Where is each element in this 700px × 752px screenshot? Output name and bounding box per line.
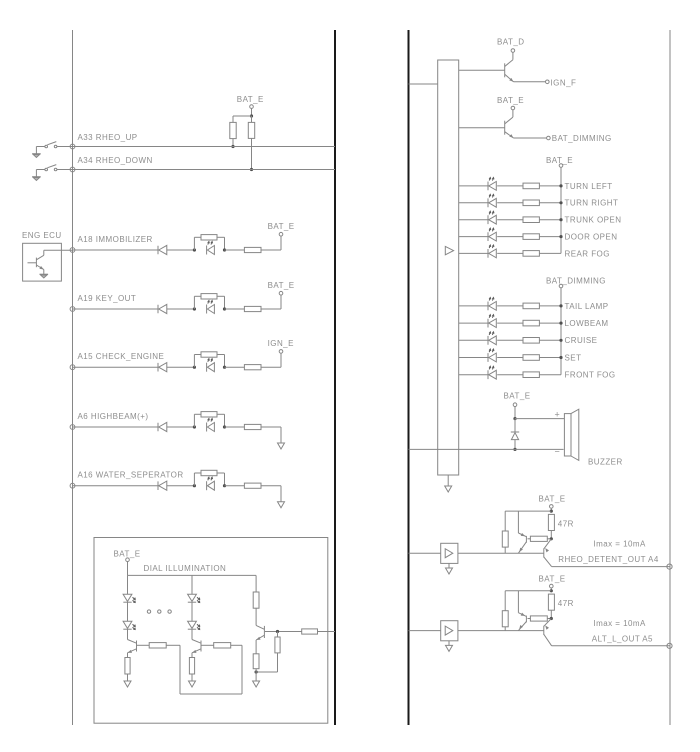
- wire A6 c: [225, 426, 245, 428]
- switch S A34: [45, 165, 57, 171]
- transistor Q limit ALT_L_OUT_A5: [518, 591, 526, 631]
- wire CRUISE b: [497, 339, 523, 341]
- wire dial BAT_E down: [127, 562, 129, 576]
- emitter arrow dial B: [191, 650, 196, 654]
- junction rail TAIL_LAMP: [559, 304, 562, 307]
- svg-text:LOWBEAM: LOWBEAM: [565, 319, 609, 328]
- wire SET c: [539, 357, 561, 359]
- junction rail SET: [559, 356, 562, 359]
- LED SET: [488, 349, 496, 362]
- LED dial A2: [123, 621, 135, 629]
- wire A18 bypass up: [193, 237, 195, 250]
- wire A33 to ground: [35, 147, 37, 154]
- transistor Q dial A: [128, 640, 137, 653]
- junction pullup tee: [250, 114, 253, 117]
- svg-text:REAR FOG: REAR FOG: [565, 249, 610, 258]
- resistor R bypass A6: [201, 412, 217, 417]
- svg-text:BAT_E: BAT_E: [539, 574, 566, 583]
- connector pin A33: [70, 144, 75, 149]
- junction rail DOOR_OPEN: [559, 235, 562, 238]
- wire FRONT_FOG b: [497, 374, 523, 376]
- svg-text:DIAL ILLUMINATION: DIAL ILLUMINATION: [144, 564, 227, 573]
- wire LOWBEAM b: [497, 322, 523, 324]
- svg-text:A33 RHEO_UP: A33 RHEO_UP: [78, 133, 138, 142]
- wire A19 b: [167, 308, 195, 310]
- wire buzzer plus: [515, 418, 564, 420]
- wire A15 to IGN_E: [280, 353, 282, 367]
- arrow Q limit e ALT_L_OUT_A5: [518, 625, 523, 630]
- emitter arrow Q dim: [509, 134, 514, 139]
- resistor R collector dial out: [253, 592, 259, 608]
- wire Q IGN_F emitter out: [514, 81, 546, 83]
- transistor Q limit RHEO_DETENT_OUT_A4: [518, 511, 526, 553]
- wire ECU to pin A18: [44, 249, 73, 251]
- terminal IGN_E (A15): [279, 350, 283, 354]
- terminal BAT_E (buzzer): [513, 403, 517, 407]
- ground A16: [278, 502, 285, 508]
- buffer U RHEO_DETENT_OUT_A4: [441, 543, 458, 563]
- wire A18 a: [73, 249, 159, 251]
- resistor R TAIL_LAMP: [523, 303, 539, 309]
- wire TRUNK_OPEN b: [497, 219, 523, 221]
- connector pin A16: [70, 483, 75, 488]
- ellipsis dots (repeated stages): [147, 610, 171, 613]
- diode D buzzer clamp: [511, 432, 519, 440]
- junction A15 right: [223, 366, 226, 369]
- wire ECU collector up: [43, 250, 45, 255]
- resistor R series A16: [244, 483, 261, 488]
- wire dial B to Q: [191, 629, 193, 639]
- left section thick border bus: [334, 30, 336, 725]
- wire A18 bypass down: [224, 237, 226, 250]
- buffer U ALT_L_OUT_A5: [441, 621, 458, 641]
- resistor R TRUNK_OPEN: [523, 217, 539, 223]
- wire TURN_RIGHT b: [497, 202, 523, 204]
- wire REAR_FOG a: [459, 252, 488, 254]
- wire dial out base: [265, 631, 302, 633]
- wire buffer RHEO_DETENT_OUT_A4 ground: [448, 563, 450, 568]
- wire BAT_DIMMING rail: [560, 288, 562, 375]
- wire dial link b: [231, 644, 242, 646]
- ENG ECU box: [23, 243, 62, 281]
- terminal BAT_E (A18): [279, 232, 283, 236]
- svg-text:ALT_L_OUT A5: ALT_L_OUT A5: [592, 634, 653, 643]
- wire pullup tee left: [233, 115, 252, 117]
- wire dial out top: [255, 575, 257, 592]
- wire dial link down: [179, 645, 181, 694]
- wire CRUISE a: [459, 339, 488, 341]
- wire Q IGN_F collector: [512, 52, 514, 59]
- diode D A19: [158, 304, 167, 313]
- resistor R bypass A19: [201, 294, 217, 299]
- wire CRUISE c: [539, 339, 561, 341]
- svg-text:47R: 47R: [558, 599, 574, 608]
- connector pin A34: [70, 167, 75, 172]
- resistor 47R RHEO_DETENT_OUT_A4: [548, 514, 554, 530]
- wire A19 bypass top-left: [194, 295, 201, 297]
- transistor Q ENG ECU: [28, 255, 44, 269]
- resistor R sense ALT_L_OUT_A5: [530, 616, 547, 621]
- terminal BAT_E (pullups): [250, 105, 254, 109]
- resistor R series A19: [244, 306, 261, 311]
- svg-text:BAT_DIMMING: BAT_DIMMING: [546, 277, 606, 286]
- transistor Q out RHEO_DETENT_OUT_A4: [544, 539, 552, 567]
- wire A33 to bus: [57, 146, 335, 148]
- svg-text:A16 WATER_SEPERATOR: A16 WATER_SEPERATOR: [78, 471, 184, 480]
- LED dial B1: [188, 594, 200, 602]
- wire Q limit base ALT_L_OUT_A5: [528, 618, 531, 620]
- wire BAT_E RHEO_DETENT_OUT_A4: [550, 508, 552, 511]
- resistor R pullup A34: [248, 122, 254, 138]
- svg-text:A15 CHECK_ENGINE: A15 CHECK_ENGINE: [78, 352, 165, 361]
- wire A16 bypass top-right: [217, 472, 225, 474]
- LED A15: [207, 359, 215, 372]
- junction A6 left: [193, 425, 196, 428]
- svg-text:BAT_E: BAT_E: [268, 222, 295, 231]
- resistor R series A15: [244, 365, 261, 370]
- wire TAIL_LAMP a: [459, 305, 488, 307]
- ground A6: [278, 443, 285, 449]
- arrow Q out c ALT_L_OUT_A5: [544, 624, 549, 629]
- wire switch A33 left: [36, 146, 45, 148]
- resistor R base dial out: [302, 629, 318, 634]
- wire box to Q IGN_F base: [459, 69, 505, 71]
- wire A6 bypass up: [193, 414, 195, 427]
- wire dial A top: [127, 575, 129, 594]
- left bus line (connector pins rail): [72, 30, 74, 725]
- junction A18 left: [193, 248, 196, 251]
- resistor R bias dial out: [275, 637, 280, 653]
- wire left R RHEO_DETENT_OUT_A4 a: [504, 511, 506, 531]
- diode D A16: [158, 481, 167, 490]
- connector pin ALT_L_OUT A5: [667, 643, 672, 648]
- terminal BAT_E (Q dim): [511, 106, 515, 110]
- wire REAR_FOG b: [497, 252, 523, 254]
- resistor R bypass A15: [201, 352, 217, 357]
- svg-text:TAIL LAMP: TAIL LAMP: [565, 302, 609, 311]
- wire A16 bypass down: [224, 473, 226, 486]
- wire FRONT_FOG c: [539, 374, 561, 376]
- svg-text:47R: 47R: [558, 519, 574, 528]
- svg-text:ENG ECU: ENG ECU: [22, 231, 62, 240]
- wire switch A34 left: [36, 169, 45, 171]
- resistor R TURN_LEFT: [523, 183, 539, 189]
- transistor Q IGN_F: [505, 60, 514, 82]
- wire dial B to ground: [191, 674, 193, 681]
- wire SET b: [497, 357, 523, 359]
- wire dial B top: [191, 575, 193, 594]
- svg-text:A18 IMMOBILIZER: A18 IMMOBILIZER: [78, 235, 153, 244]
- svg-text:DOOR OPEN: DOOR OPEN: [565, 233, 618, 242]
- resistor R DOOR_OPEN: [523, 234, 539, 240]
- wire top rail RHEO_DETENT_OUT_A4: [505, 510, 551, 512]
- LED A16: [207, 477, 215, 490]
- transistor Q dial out: [256, 625, 264, 640]
- svg-text:BAT_D: BAT_D: [497, 38, 524, 47]
- wire to R_up2: [251, 116, 253, 122]
- wire bus to buffer RHEO_DETENT_OUT_A4: [409, 552, 441, 554]
- junction 47R ALT_L_OUT_A5: [550, 617, 553, 620]
- wire 47R down RHEO_DETENT_OUT_A4: [550, 531, 552, 539]
- junction 47R RHEO_DETENT_OUT_A4: [550, 537, 553, 540]
- wire A19 to BAT_E: [280, 295, 282, 309]
- resistor R TURN_RIGHT: [523, 200, 539, 206]
- wire A19 a: [73, 308, 159, 310]
- terminal BAT_D: [511, 49, 515, 53]
- wire ECU emitter down: [43, 270, 45, 275]
- resistor R REAR_FOG: [523, 251, 539, 257]
- wire A15 bypass up: [193, 355, 195, 368]
- emitter arrow dial A: [127, 650, 132, 654]
- wire A6 d: [261, 426, 281, 428]
- wire A15 c: [225, 366, 245, 368]
- resistor R emitter dial B: [189, 658, 194, 675]
- resistor R CRUISE: [523, 338, 539, 344]
- wire 47R down ALT_L_OUT_A5: [550, 610, 552, 618]
- wire A6 b: [167, 426, 195, 428]
- wire A6 to ground: [280, 427, 282, 443]
- junction A18 right: [223, 248, 226, 251]
- wire A6 a: [73, 426, 159, 428]
- LED CRUISE: [488, 332, 496, 345]
- resistor R base dial A: [149, 643, 166, 648]
- wire box to Q dim base: [459, 127, 505, 129]
- terminal BAT_E (RHEO_DETENT_OUT_A4): [550, 505, 554, 509]
- transistor Q out ALT_L_OUT_A5: [544, 619, 552, 646]
- resistor R LOWBEAM: [523, 320, 539, 326]
- wire A16 to ground: [280, 486, 282, 502]
- wire dial link bottom: [180, 693, 242, 695]
- wire TRUNK_OPEN c: [539, 219, 561, 221]
- connector pin A6: [70, 425, 75, 430]
- terminal BAT_DIMMING (group): [559, 284, 563, 288]
- resistor R sense RHEO_DETENT_OUT_A4: [530, 536, 547, 541]
- right border rail: [669, 30, 671, 725]
- svg-text:A19 KEY_OUT: A19 KEY_OUT: [78, 294, 137, 303]
- ground A33 switch: [32, 154, 41, 158]
- svg-text:TURN LEFT: TURN LEFT: [565, 182, 613, 191]
- junction A16 left: [193, 484, 196, 487]
- svg-text:BAT_E: BAT_E: [114, 550, 141, 559]
- svg-text:FRONT FOG: FRONT FOG: [565, 371, 616, 380]
- junction rail TURN_LEFT: [559, 184, 562, 187]
- diode D A15: [158, 363, 167, 372]
- junction top ALT_L_OUT_A5: [550, 589, 553, 592]
- wire A19 bypass up: [193, 296, 195, 309]
- wire R_up1 to A33 line: [232, 139, 234, 147]
- wire ALT_L_OUT_A5: [550, 593, 552, 595]
- wire dial Rb down b: [277, 653, 279, 672]
- junction buzzer minus: [513, 448, 516, 451]
- svg-text:A6 HIGHBEAM(+): A6 HIGHBEAM(+): [78, 412, 149, 421]
- resistor R base RHEO_DETENT_OUT_A4: [502, 531, 508, 547]
- wire dial B mid: [191, 602, 193, 621]
- wire Q dim emitter out: [514, 137, 547, 139]
- wire box to ground: [447, 475, 449, 486]
- resistor R bypass A18: [201, 235, 217, 240]
- junction rail TURN_RIGHT: [559, 201, 562, 204]
- ground connector box: [445, 486, 452, 492]
- resistor R emitter dial A: [125, 658, 130, 675]
- wire A6 bypass top-left: [194, 413, 201, 415]
- wire BAT_E down: [251, 108, 253, 116]
- wire dial B emitter: [191, 653, 193, 658]
- svg-text:+: +: [555, 409, 561, 419]
- wire A16 c: [225, 485, 245, 487]
- LED dial B2: [188, 621, 200, 629]
- LED DOOR_OPEN: [488, 228, 496, 241]
- diode D A6: [158, 422, 167, 431]
- connector pin A19: [70, 307, 75, 312]
- svg-text:BAT_E: BAT_E: [268, 281, 295, 290]
- wire R sense to 47R ALT_L_OUT_A5: [547, 618, 551, 620]
- LED TURN_LEFT: [488, 178, 496, 191]
- LED A19: [207, 301, 215, 314]
- wire dial A mid: [127, 602, 129, 621]
- transistor Q BAT_DIMMING: [505, 117, 514, 138]
- svg-text:TURN RIGHT: TURN RIGHT: [565, 199, 619, 208]
- wire dial out to ground: [255, 669, 257, 681]
- wire A15 bypass down: [224, 355, 226, 368]
- wire FRONT_FOG a: [459, 374, 488, 376]
- wire TRUNK_OPEN a: [459, 219, 488, 221]
- transistor emitter arrow ENG ECU: [39, 266, 44, 271]
- wire buffer ALT_L_OUT_A5 ground: [448, 641, 450, 646]
- ground A34 switch: [32, 177, 41, 181]
- wire dial top rail: [128, 574, 257, 576]
- svg-text:BAT_E: BAT_E: [497, 96, 524, 105]
- wire A18 d: [261, 249, 281, 251]
- connector pin A15: [70, 365, 75, 370]
- junction A6 right: [223, 425, 226, 428]
- connector block box: [438, 60, 459, 475]
- diode D A18: [158, 245, 167, 254]
- transistor Q dial B: [192, 640, 201, 653]
- wire dial out to bus: [318, 631, 336, 633]
- terminal BAT_DIMMING: [547, 136, 551, 140]
- wire LOWBEAM a: [459, 322, 488, 324]
- resistor R bypass A16: [201, 470, 217, 475]
- wire A18 c: [225, 249, 245, 251]
- wire dial link a: [166, 644, 180, 646]
- ground ENG ECU: [40, 274, 49, 278]
- wire BAT_E ALT_L_OUT_A5: [550, 588, 552, 591]
- wire DOOR_OPEN c: [539, 236, 561, 238]
- wire dial out collector: [255, 608, 257, 625]
- terminal BAT_E (dial): [126, 558, 130, 562]
- svg-text:IGN_F: IGN_F: [551, 78, 577, 87]
- wire REAR_FOG c: [539, 252, 561, 254]
- ground dial A: [124, 681, 131, 687]
- junction buzzer plus: [513, 417, 516, 420]
- wire A18 bypass top-right: [217, 236, 225, 238]
- arrow Q limit c RHEO_DETENT_OUT_A4: [521, 533, 526, 538]
- wire to R_up1: [232, 116, 234, 122]
- wire TURN_LEFT b: [497, 185, 523, 187]
- wire buzzer BAT_E down: [514, 407, 516, 419]
- LED A18: [207, 242, 215, 255]
- junction A15 left: [193, 366, 196, 369]
- ground dial out: [253, 681, 260, 687]
- junction A19 right: [223, 307, 226, 310]
- arrow Q limit c ALT_L_OUT_A5: [521, 613, 526, 618]
- wire bus to connector box: [409, 83, 438, 85]
- wire TURN_LEFT a: [459, 185, 488, 187]
- wire dial A emitter: [127, 653, 129, 658]
- wire left R ALT_L_OUT_A5 b: [504, 627, 506, 631]
- emitter arrow dial out: [255, 637, 260, 642]
- wire dial Rb to emitter: [256, 671, 277, 673]
- wire A19 bypass down: [224, 296, 226, 309]
- junction A19 left: [193, 307, 196, 310]
- svg-text:A34 RHEO_DOWN: A34 RHEO_DOWN: [78, 156, 153, 165]
- resistor R series A18: [244, 247, 261, 252]
- resistor R SET: [523, 355, 539, 361]
- wire A15 bypass top-left: [194, 354, 201, 356]
- resistor R base dial B: [214, 643, 231, 648]
- wire A6 bypass top-right: [217, 413, 225, 415]
- terminal BAT_E (ALT_L_OUT_A5): [550, 584, 554, 588]
- resistor R series A6: [244, 424, 261, 429]
- ground buffer RHEO_DETENT_OUT_A4: [446, 568, 453, 574]
- wire left R RHEO_DETENT_OUT_A4 b: [504, 547, 506, 553]
- terminal BAT_E (group): [559, 164, 563, 168]
- svg-text:BUZZER: BUZZER: [588, 458, 623, 467]
- wire left R ALT_L_OUT_A5 a: [504, 591, 506, 611]
- wire A19 c: [225, 308, 245, 310]
- wire dial out emitter: [255, 640, 257, 654]
- wire dial B base: [202, 644, 214, 646]
- wire RHEO_DETENT_OUT_A4: [550, 513, 552, 515]
- svg-text:RHEO_DETENT_OUT A4: RHEO_DETENT_OUT A4: [558, 555, 659, 564]
- svg-text:BAT_E: BAT_E: [539, 495, 566, 504]
- wire Q limit base RHEO_DETENT_OUT_A4: [528, 538, 531, 540]
- wire A16 d: [261, 485, 281, 487]
- wire dial link up: [241, 645, 243, 694]
- DIAL ILLUMINATION box: [94, 538, 328, 724]
- arrow Q limit e RHEO_DETENT_OUT_A4: [518, 548, 523, 553]
- buffer amplifier triangle (in box): [445, 246, 453, 254]
- right section thick border bus: [408, 30, 410, 725]
- wire dial A base: [137, 644, 149, 646]
- wire R sense to 47R RHEO_DETENT_OUT_A4: [547, 538, 551, 540]
- junction dial Rb top: [276, 630, 279, 633]
- resistor R pullup A33: [230, 122, 236, 138]
- wire A15 d: [261, 366, 281, 368]
- wire A16 bypass top-left: [194, 472, 201, 474]
- buzzer LS1: [564, 409, 578, 460]
- junction rail LOWBEAM: [559, 322, 562, 325]
- wire dial A to ground: [127, 674, 129, 681]
- junction rail CRUISE: [559, 339, 562, 342]
- wire A18 b: [167, 249, 195, 251]
- terminal BAT_E (A19): [279, 291, 283, 295]
- junction A16 right: [223, 484, 226, 487]
- emitter arrow Q IGN_F: [509, 78, 514, 83]
- wire output RHEO_DETENT_OUT A4: [552, 566, 670, 568]
- wire output ALT_L_OUT A5: [552, 645, 670, 647]
- wire SET a: [459, 357, 488, 359]
- switch S A33: [45, 142, 57, 148]
- LED A6: [207, 419, 215, 432]
- resistor 47R ALT_L_OUT_A5: [548, 594, 554, 610]
- resistor R FRONT_FOG: [523, 372, 539, 378]
- wire top rail ALT_L_OUT_A5: [505, 590, 551, 592]
- junction top RHEO_DETENT_OUT_A4: [550, 510, 553, 513]
- wire Q dim collector: [512, 110, 514, 117]
- wire A19 bypass top-right: [217, 295, 225, 297]
- svg-text:Imax = 10mA: Imax = 10mA: [594, 539, 647, 548]
